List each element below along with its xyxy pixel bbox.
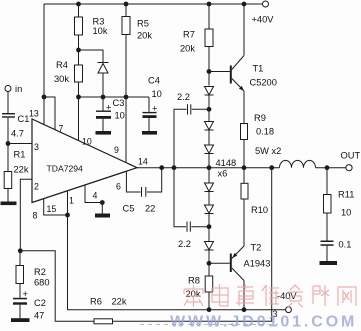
wire pin 10: [78, 97, 80, 141]
svg-text:8: 8: [33, 211, 38, 221]
wire feedback return: [113, 168, 272, 322]
node T2 base junction: [207, 261, 212, 266]
wire pin 2: [20, 179, 32, 251]
ground C4: [142, 131, 157, 135]
terminal -40V: [277, 291, 297, 313]
pin 14 label: [138, 157, 148, 167]
terminal in: [5, 84, 22, 94]
svg-text:R9: R9: [254, 113, 266, 123]
ground R1: [1, 202, 17, 206]
svg-text:R4: R4: [56, 60, 68, 70]
svg-text:A1943: A1943: [244, 259, 271, 269]
pin 15 label: [47, 204, 57, 214]
svg-text:WWW.JD0101.COM: WWW.JD0101.COM: [170, 314, 357, 331]
capacitor C6 2.2 upper: [174, 92, 209, 168]
pin 8 label: [33, 211, 38, 221]
diode D7: [98, 63, 109, 98]
svg-text:30k: 30k: [54, 74, 69, 84]
wire R8 bottom: [208, 292, 210, 310]
svg-text:R11: R11: [338, 190, 354, 200]
svg-text:2: 2: [34, 182, 39, 192]
wire R5 top: [125, 4, 127, 17]
svg-text:R8: R8: [188, 276, 200, 286]
svg-text:T1: T1: [253, 64, 264, 74]
wire pins 15 1 to -Vs: [44, 191, 68, 310]
node pin4 ground junction: [100, 200, 105, 205]
pin 4 label: [93, 191, 98, 201]
node R3/R4 junction: [76, 48, 81, 53]
svg-text:20k: 20k: [137, 31, 152, 41]
svg-text:C1: C1: [18, 114, 30, 124]
pin 3 label: [34, 142, 39, 152]
svg-text:22k: 22k: [112, 297, 127, 307]
node zobel junction: [325, 165, 330, 170]
svg-text:R1: R1: [14, 150, 26, 160]
node T1 base junction: [207, 69, 212, 74]
wire pin 3: [8, 143, 32, 145]
svg-text:3: 3: [34, 142, 39, 152]
svg-text:R3: R3: [93, 17, 105, 27]
node chain 2.2 lower: [207, 224, 212, 229]
wire R3 top: [78, 4, 80, 17]
node R3 rail: [76, 2, 81, 7]
pin 2 label: [34, 182, 39, 192]
svg-text:OUT: OUT: [341, 151, 361, 161]
node bus R4: [76, 95, 81, 100]
svg-text:15: 15: [47, 204, 57, 214]
svg-text:R7: R7: [183, 30, 195, 40]
capacitor C8 0.1: [321, 213, 352, 261]
pin 7 label: [59, 124, 64, 134]
diode D5: [205, 205, 214, 242]
node T1 collector rail: [242, 2, 247, 7]
svg-text:2.2: 2.2: [177, 92, 190, 102]
ground C2: [11, 318, 30, 322]
resistor R4: [54, 60, 83, 84]
node input pin3: [6, 141, 11, 146]
svg-text:22k: 22k: [14, 165, 29, 175]
ground zobel: [320, 261, 338, 265]
svg-text:47: 47: [34, 311, 44, 321]
svg-text:9: 9: [114, 145, 119, 155]
svg-text:22: 22: [145, 204, 155, 214]
diode D6: [205, 242, 214, 277]
wire pin 4 to ground: [85, 185, 102, 214]
node T2 collector rail: [242, 307, 247, 312]
svg-text:R2: R2: [34, 267, 46, 277]
diode D4: [205, 183, 214, 205]
pin 13 label: [29, 109, 39, 119]
node feedback output junction: [269, 165, 274, 170]
svg-text:14: 14: [138, 157, 148, 167]
svg-text:+40V: +40V: [252, 15, 275, 25]
svg-text:TDA7294: TDA7294: [47, 164, 84, 174]
wire T1 base: [209, 71, 230, 73]
pin 6 label: [116, 182, 121, 192]
transistor T1: [230, 4, 277, 124]
svg-text:C4: C4: [148, 76, 160, 86]
wire -Vs rail: [68, 309, 286, 311]
svg-text:+: +: [106, 103, 111, 113]
wire T2 base: [209, 262, 230, 264]
resistor R8: [186, 276, 213, 300]
resistor R1: [4, 144, 29, 202]
wire output line: [137, 167, 280, 169]
wire R5 bottom and pin 9: [125, 35, 127, 163]
resistor R5: [122, 17, 152, 41]
node C5 output junction: [159, 165, 164, 170]
resistor R3: [75, 17, 108, 37]
svg-text:20k: 20k: [180, 44, 195, 54]
caption remnant: [140, 309, 278, 325]
svg-text:680: 680: [34, 278, 50, 288]
resistor R10: [241, 168, 268, 246]
svg-text:+: +: [23, 289, 28, 299]
svg-text:1: 1: [69, 196, 74, 206]
diode D2: [205, 122, 214, 146]
node R5 rail: [124, 2, 129, 7]
ground C3: [96, 131, 112, 135]
svg-text:R5: R5: [137, 19, 149, 29]
svg-text:C5200: C5200: [250, 78, 277, 88]
op-amp U1 TDA7294: [32, 119, 137, 203]
svg-text:4148: 4148: [216, 158, 237, 168]
svg-text:C2: C2: [34, 298, 46, 308]
watermark blue url: [170, 314, 357, 331]
diode D3: [205, 145, 237, 183]
resistor R2: [16, 251, 50, 298]
svg-text:R6: R6: [90, 297, 102, 307]
wire +V reference bus: [79, 96, 150, 98]
svg-text:5W x2: 5W x2: [255, 146, 281, 156]
wire R4 bottom to bus: [78, 82, 80, 97]
svg-text:4.7: 4.7: [11, 129, 24, 139]
node chain output: [207, 165, 212, 170]
capacitor C7 2.2 lower: [174, 168, 209, 249]
svg-text:0.18: 0.18: [256, 127, 274, 137]
terminal OUT: [341, 151, 361, 171]
wire left +Vs drop to pins 13 and 7: [44, 4, 55, 130]
svg-text:13: 13: [29, 109, 39, 119]
pin 1 label: [69, 196, 74, 206]
resistor R11: [324, 168, 355, 218]
node R8 rail: [207, 307, 212, 312]
svg-text:10k: 10k: [93, 26, 108, 36]
node R7 rail: [207, 2, 212, 7]
capacitor C3: [96, 97, 125, 131]
transistor T2: [230, 243, 271, 310]
svg-text:0.1: 0.1: [339, 240, 352, 250]
capacitor C1: [2, 92, 29, 144]
capacitor C4: [143, 76, 162, 132]
capacitor C5: [123, 168, 162, 214]
inductor L1: [280, 160, 347, 167]
svg-text:7: 7: [59, 124, 64, 134]
node bus C3: [101, 95, 106, 100]
svg-text:C3: C3: [113, 98, 125, 108]
svg-text:10: 10: [152, 89, 162, 99]
pin 10 label: [82, 137, 92, 147]
svg-text:T2: T2: [251, 243, 262, 253]
ground pin 4: [95, 214, 110, 218]
node 2.2 output junction: [172, 165, 177, 170]
capacitor C2: [13, 289, 46, 321]
svg-text:10: 10: [82, 137, 92, 147]
wire R9 to output: [243, 140, 245, 168]
wire diode branch top: [79, 50, 104, 62]
svg-text:6: 6: [116, 182, 121, 192]
resistor R7: [180, 29, 213, 54]
wire R7 to chain: [208, 47, 210, 86]
svg-text:C5: C5: [123, 204, 135, 214]
node R2 feedback junction: [18, 248, 23, 253]
node +Vs left junction: [42, 95, 47, 100]
svg-text:+: +: [152, 104, 157, 114]
wire feedback to R6: [20, 251, 94, 321]
diode D1: [205, 87, 214, 122]
node chain 2.2 upper: [207, 107, 212, 112]
svg-text:10: 10: [341, 208, 351, 218]
wire R7 top: [208, 4, 210, 29]
resistor R9: [241, 113, 282, 156]
svg-text:x6: x6: [218, 169, 228, 179]
watermark red characters: [184, 284, 356, 307]
node pin1 pin15 junction: [65, 213, 70, 218]
svg-text:2.2: 2.2: [178, 239, 191, 249]
node bus R5: [124, 95, 129, 100]
svg-text:R10: R10: [251, 205, 268, 215]
node R9 R10 output junction: [242, 165, 247, 170]
wire R3 to R4: [78, 35, 80, 65]
svg-text:4: 4: [93, 191, 98, 201]
resistor R6: [90, 297, 127, 324]
svg-text:in: in: [15, 84, 22, 94]
pin 9 label: [114, 145, 119, 155]
svg-text:10: 10: [115, 111, 125, 121]
terminal +40V: [252, 1, 275, 25]
wire top +V rail: [44, 3, 266, 5]
